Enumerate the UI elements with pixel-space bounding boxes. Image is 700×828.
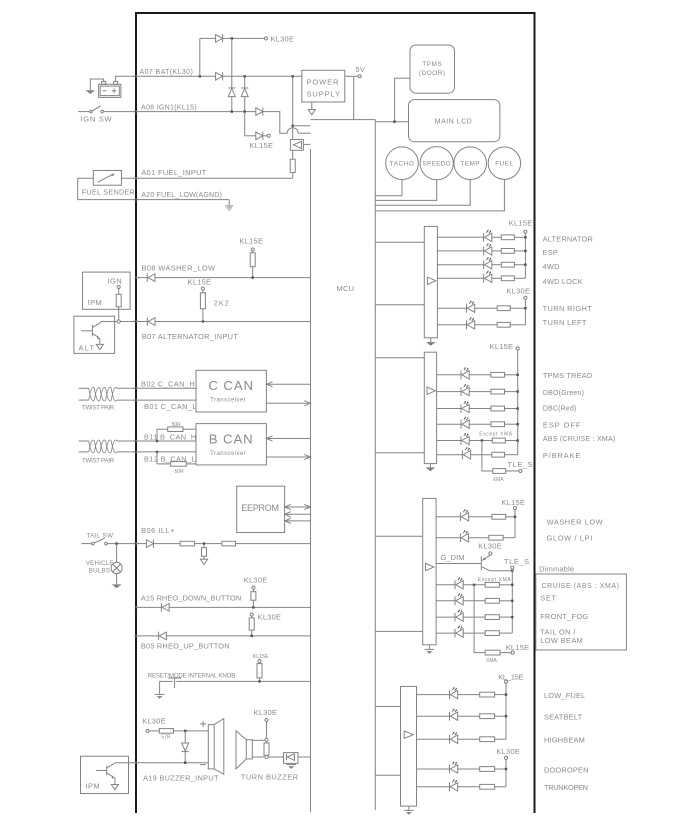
- label TLE_S sec2: [508, 460, 534, 469]
- svg-text:57R: 57R: [161, 734, 171, 740]
- gauge FUEL: [488, 147, 520, 179]
- wire front fog to resistor: [463, 616, 485, 618]
- wire xma sec3 to KL15E: [500, 652, 511, 654]
- wire B07 ALTERNATOR_INPUT: [136, 321, 311, 323]
- wire highbeam: [417, 738, 450, 740]
- svg-text:50R: 50R: [172, 422, 182, 428]
- label KL15E sec3: [502, 498, 526, 507]
- svg-text:FUEL: FUEL: [495, 161, 513, 168]
- wire p brake: [437, 454, 463, 456]
- resistor front fog: [485, 615, 499, 620]
- svg-text:B02 C_CAN_H: B02 C_CAN_H: [141, 379, 195, 388]
- wire turn driver to MCU: [298, 756, 311, 758]
- wire dim bus: [511, 569, 513, 633]
- resistor dooropen: [480, 767, 495, 772]
- wire 5V to MCU: [353, 76, 355, 119]
- wire set: [436, 600, 455, 602]
- label KL30E rheo down: [244, 576, 268, 585]
- twisted pair B-CAN: [79, 440, 136, 453]
- twisted pair C-CAN: [79, 387, 136, 401]
- wire cruise mid: [463, 584, 485, 586]
- junction dot reset pullup: [258, 680, 260, 682]
- wire 4wd: [437, 264, 483, 266]
- opto U3 box: [290, 140, 303, 151]
- node A20 border dot: [135, 198, 137, 200]
- fuel sender box: [93, 171, 121, 186]
- wire KL_15E bus sec4: [505, 683, 507, 739]
- resistor R11 rheo up pullup: [249, 616, 254, 636]
- wire tail on to bus: [499, 632, 512, 634]
- svg-text:TACHO: TACHO: [390, 161, 414, 168]
- svg-text:TWIST PAIR: TWIST PAIR: [82, 458, 115, 465]
- wire dbo green to bus: [505, 391, 518, 393]
- svg-text:4WD: 4WD: [543, 262, 560, 271]
- wire KL15E bus sec1: [524, 234, 526, 279]
- resistor R4 2K2: [200, 290, 205, 321]
- junction dot dbc red: [517, 407, 519, 409]
- ground driver U6: [426, 464, 436, 472]
- label pin B06: [141, 526, 175, 535]
- svg-text:FUEL SENDER: FUEL SENDER: [82, 187, 135, 196]
- node A19 border dot: [135, 762, 137, 764]
- resistor R7 ill: [180, 541, 195, 546]
- label TPMS: [422, 61, 442, 68]
- label TAIL ON /: [540, 628, 576, 637]
- junction dot B12 term: [156, 451, 158, 453]
- label Except XMA sec3: [478, 577, 512, 583]
- junction dot cruise xma: [473, 584, 475, 586]
- label pin A08: [141, 104, 197, 111]
- svg-text:KL30E: KL30E: [254, 708, 278, 717]
- C CAN transceiver box: [196, 370, 266, 412]
- wire seatbelt: [417, 715, 450, 717]
- svg-text:2K2: 2K2: [214, 300, 230, 307]
- wire washer low to bus: [506, 516, 515, 518]
- wire washer low: [436, 516, 460, 518]
- ground ALT: [96, 344, 103, 349]
- svg-text:A08 IGN1(KL15): A08 IGN1(KL15): [141, 104, 197, 111]
- label 50R lower: [175, 469, 185, 475]
- wire MCU to driver4 b: [375, 774, 400, 776]
- terminal KL30E buzzer: [146, 729, 149, 732]
- wire turn to driver: [268, 756, 283, 758]
- resistor cruise: [485, 582, 499, 587]
- ground driver U5: [426, 338, 436, 346]
- wire B11 B_CAN_H: [136, 440, 196, 442]
- node B11 border dot: [135, 440, 137, 442]
- cluster boundary border: [135, 12, 536, 813]
- wire 4wd lock: [437, 277, 483, 279]
- wire MCU to driver2 a: [375, 357, 424, 359]
- label TACHO: [390, 161, 414, 168]
- node B06 border dot: [135, 542, 137, 544]
- junction dot A15 pullup: [252, 606, 254, 608]
- EEPROM U4 box: [237, 486, 285, 532]
- svg-text:Except XMA: Except XMA: [479, 431, 513, 437]
- node B12 border dot: [135, 451, 137, 453]
- wire turn right to resistor: [475, 307, 498, 309]
- resistor R13 57R: [159, 729, 173, 734]
- svg-text:Dimmable: Dimmable: [539, 565, 574, 574]
- switch reset knob: [160, 678, 311, 688]
- lamp vehicle bulbs: [111, 562, 122, 573]
- resistor tail on: [485, 631, 499, 636]
- gauge TEMP: [454, 147, 487, 180]
- label pin A19: [143, 773, 219, 782]
- wire turn speaker bottom: [252, 756, 265, 758]
- wire G_DIM: [436, 563, 481, 565]
- svg-text:B08 WASHER_LOW: B08 WASHER_LOW: [142, 263, 216, 272]
- resistor p brake: [492, 452, 505, 457]
- ground IPM lower: [111, 785, 118, 790]
- diode D8 on B07: [147, 317, 155, 325]
- svg-text:CRUISE (ABS : XMA): CRUISE (ABS : XMA): [542, 583, 620, 590]
- wire front fog: [436, 616, 455, 618]
- label KL30E sec1: [507, 287, 531, 296]
- svg-text:TRUNKOPEN: TRUNKOPEN: [544, 783, 588, 792]
- ground AGND: [225, 206, 233, 210]
- label pin B07: [142, 332, 239, 341]
- label 57R: [161, 734, 171, 740]
- power supply U2 box: [302, 70, 345, 102]
- label GLOW / LPI: [547, 533, 593, 542]
- label B CAN: [209, 431, 254, 446]
- label SEATBELT: [544, 713, 583, 722]
- resistor R6 50R lower: [157, 452, 196, 466]
- wire EEPROM bus3: [285, 518, 311, 523]
- wire MCU to driver3 a: [375, 535, 422, 537]
- ALT box: [74, 316, 115, 353]
- diode D7 on B08: [147, 273, 155, 281]
- svg-text:RESET/MODE INTERNAL KNOB: RESET/MODE INTERNAL KNOB: [148, 673, 236, 680]
- junction dot B08 pullup: [252, 276, 254, 278]
- wire B01 C_CAN_L: [136, 399, 196, 401]
- label TURN BUZZER: [241, 773, 299, 782]
- wire B07 collector: [101, 321, 136, 323]
- label KL30E rheo up: [258, 613, 282, 622]
- label KL30E buzzer: [142, 717, 166, 726]
- resistor set: [485, 598, 499, 603]
- svg-text:KL15E: KL15E: [502, 498, 526, 507]
- resistor R1 fuel: [290, 159, 295, 172]
- svg-text:MAIN LCD: MAIN LCD: [435, 118, 472, 125]
- junction dot seatbelt: [505, 715, 507, 717]
- label B CAN transceiver: [210, 451, 246, 457]
- label TWIST PAIR lower: [82, 458, 115, 465]
- label FUEL: [495, 161, 513, 168]
- terminal KL30E sec4: [504, 756, 507, 759]
- label G_DIM: [441, 553, 465, 562]
- gauge SPEEDO: [420, 147, 453, 180]
- svg-text:POWER: POWER: [307, 77, 340, 86]
- label KL15E alt: [188, 278, 212, 287]
- label EEPROM: [241, 503, 279, 513]
- wire tpms tread to bus: [505, 374, 518, 376]
- svg-text:KL15E: KL15E: [506, 643, 530, 652]
- label XMA sec2: [493, 477, 505, 483]
- wire dbo green to resistor: [469, 391, 491, 393]
- terminal 5V: [358, 75, 361, 78]
- svg-text:G_DIM: G_DIM: [441, 553, 465, 562]
- wire abs row: [437, 440, 461, 442]
- wire battery positive to A07: [116, 76, 136, 81]
- wire esp to bus: [514, 250, 525, 252]
- svg-text:KL15E: KL15E: [240, 236, 264, 245]
- svg-text:B12 B_CAN_L: B12 B_CAN_L: [144, 454, 196, 463]
- node turn buzzer top circle: [265, 738, 268, 741]
- svg-text:TURN RIGHT: TURN RIGHT: [543, 304, 593, 313]
- label C CAN transceiver: [210, 398, 246, 404]
- IPM box upper: [83, 272, 131, 309]
- terminal KL30E turn: [265, 718, 268, 721]
- wire vertical D3 branch: [231, 38, 233, 111]
- node B01 border dot: [135, 399, 137, 401]
- resistor 4wd lock: [501, 276, 514, 281]
- wire MCU to C CAN: [266, 382, 310, 387]
- fuel sender arrow: [98, 173, 115, 182]
- label 4WD: [543, 262, 560, 271]
- label TURN LEFT: [543, 318, 587, 327]
- label KL15E reset: [253, 654, 269, 660]
- svg-text:B01 C_CAN_L: B01 C_CAN_L: [144, 402, 197, 411]
- svg-text:KL30E: KL30E: [258, 613, 282, 622]
- wire dooropen to resistor: [458, 768, 480, 770]
- svg-text:DBO(Green): DBO(Green): [543, 390, 584, 397]
- LED turn left: [467, 317, 475, 329]
- ground battery: [85, 90, 95, 94]
- LED abs: [461, 433, 469, 445]
- wire highbeam to bus: [495, 738, 506, 740]
- battery minus mark: [103, 90, 107, 92]
- diode D12 buzzer clamp: [182, 731, 189, 763]
- LED dooropen: [450, 761, 458, 773]
- junction dot ill divider: [203, 542, 205, 544]
- label pin B12: [144, 454, 196, 463]
- resistor R3 IPM: [116, 289, 121, 320]
- wire A08 IGN1: [136, 111, 256, 113]
- diode D4 vertical: [241, 88, 248, 97]
- svg-text:B05 RHEO_UP_BUTTON: B05 RHEO_UP_BUTTON: [141, 642, 230, 651]
- junction dot A19 diode: [184, 762, 186, 764]
- label IGN: [108, 276, 123, 285]
- wire dbc red to resistor: [469, 408, 491, 410]
- junction dot dbo green: [517, 390, 519, 392]
- wire abs to junction: [469, 440, 492, 442]
- wire KL15E bus sec3: [514, 510, 516, 538]
- svg-text:TURN BUZZER: TURN BUZZER: [241, 773, 299, 782]
- svg-text:Transceiver: Transceiver: [210, 398, 246, 404]
- junction dot tpms tread: [517, 374, 519, 376]
- svg-text:A19 BUZZER_INPUT: A19 BUZZER_INPUT: [143, 773, 219, 782]
- junction dot B07 pullup: [202, 320, 204, 322]
- wire low fuel: [417, 694, 450, 696]
- svg-text:KL30E: KL30E: [507, 287, 531, 296]
- junction dot alternator: [524, 236, 526, 238]
- wire tail on to resistor: [463, 632, 485, 634]
- svg-text:B07 ALTERNATOR_INPUT: B07 ALTERNATOR_INPUT: [142, 332, 239, 341]
- junction dot abs xma: [481, 439, 483, 441]
- label XMA sec3: [486, 658, 498, 664]
- label pin A07: [140, 69, 194, 76]
- wire seatbelt to bus: [495, 715, 506, 717]
- resistor R10 rheo down pullup: [251, 589, 256, 607]
- wire KL30E: [223, 37, 265, 39]
- LED dbo green: [461, 384, 469, 396]
- label LOW_FUEL: [544, 691, 585, 700]
- label FUEL SENDER: [82, 187, 135, 196]
- svg-text:KL30E: KL30E: [496, 747, 520, 756]
- label IPM upper: [88, 298, 103, 307]
- terminal KL15E alt pullup: [201, 287, 204, 290]
- svg-text:GLOW / LPI: GLOW / LPI: [547, 533, 593, 542]
- junction dot KL30E: [231, 37, 233, 39]
- label Dimmable: [539, 565, 574, 574]
- resistor tpms tread: [491, 372, 505, 377]
- svg-text:C CAN: C CAN: [208, 378, 254, 393]
- svg-text:P/BRAKE: P/BRAKE: [543, 451, 581, 460]
- svg-text:50R: 50R: [175, 469, 185, 475]
- junction dot esp off: [517, 423, 519, 425]
- svg-text:A01 FUEL_INPUT: A01 FUEL_INPUT: [141, 168, 206, 177]
- svg-text:A20 FUEL_LOW(AGND): A20 FUEL_LOW(AGND): [141, 192, 222, 199]
- wire B06 ILL+: [136, 543, 311, 545]
- wire p brake to resistor: [471, 454, 492, 456]
- svg-text:TURN LEFT: TURN LEFT: [543, 318, 587, 327]
- LED dbc red: [461, 401, 469, 413]
- junction dot A08-D4: [244, 110, 246, 112]
- wire MCU to driver1 a: [375, 241, 424, 243]
- wire dbo green: [437, 391, 461, 393]
- terminal KL30E sec3: [489, 552, 492, 555]
- svg-text:BULBS: BULBS: [89, 568, 110, 575]
- terminal KL15E sec3: [513, 507, 516, 510]
- LED esp: [484, 243, 492, 255]
- node turn buzzer bottom circle: [265, 755, 268, 758]
- label SUPPLY: [307, 90, 341, 99]
- wire B CAN to MCU: [266, 454, 310, 459]
- label KL15E xma: [506, 643, 530, 652]
- svg-text:EEPROM: EEPROM: [241, 503, 279, 513]
- ground vehicle bulbs: [112, 584, 122, 588]
- svg-text:B06 ILL+: B06 ILL+: [141, 526, 175, 535]
- junction dot abs: [517, 439, 519, 441]
- wire 4wd to bus: [514, 264, 525, 266]
- svg-text:XMA: XMA: [486, 658, 498, 664]
- junction dot opto tap: [292, 125, 294, 127]
- transistor Q1 ALT: [81, 322, 101, 345]
- wire esp off to bus: [505, 423, 518, 425]
- wire p brake to bus: [505, 454, 518, 456]
- MCU U1 box: [311, 120, 376, 812]
- resistor turn left: [497, 322, 510, 327]
- MCU label: [337, 284, 355, 293]
- wire battery negative: [90, 79, 103, 90]
- wire SPEEDO to MCU: [375, 180, 436, 201]
- node B05 border dot: [135, 635, 137, 637]
- ground ill divider: [200, 559, 207, 564]
- switch IGN SW: [78, 106, 136, 113]
- svg-text:LOW BEAM: LOW BEAM: [540, 636, 583, 645]
- svg-text:B CAN: B CAN: [209, 431, 254, 446]
- wire turn right: [437, 307, 466, 309]
- svg-text:IPM: IPM: [88, 298, 103, 307]
- wire turn right to bus: [510, 307, 525, 309]
- label P/BRAKE: [543, 451, 581, 460]
- terminal KL15E washer pullup: [251, 248, 254, 251]
- svg-text:IGN SW: IGN SW: [81, 115, 113, 124]
- terminal IGN: [117, 285, 120, 288]
- B CAN transceiver box: [196, 424, 266, 465]
- label KL30E sec3: [478, 541, 502, 550]
- wire resistor to A01: [292, 173, 294, 179]
- resistor R8 ill: [222, 541, 236, 546]
- label C CAN: [208, 378, 254, 393]
- svg-text:ABS (CRUISE : XMA): ABS (CRUISE : XMA): [543, 436, 616, 443]
- wire turn left: [437, 324, 466, 326]
- junction dot buzzer diode: [184, 730, 186, 732]
- junction dot A08-D3: [231, 110, 233, 112]
- wire turn buzzer supply: [266, 722, 268, 739]
- node A15 border dot: [135, 606, 137, 608]
- gauge TACHO: [386, 147, 419, 180]
- LED 4wd: [484, 257, 492, 269]
- node IPM junction circle: [117, 320, 120, 323]
- svg-text:DBC(Red): DBC(Red): [543, 405, 576, 412]
- wire MCU to B CAN: [266, 436, 310, 441]
- label pin B11: [144, 432, 197, 441]
- label FRONT_FOG: [540, 612, 588, 621]
- svg-text:MCU: MCU: [337, 284, 355, 293]
- svg-text:TWIST PAIR: TWIST PAIR: [82, 405, 115, 412]
- wire A20 FUEL_LOW: [78, 178, 230, 206]
- junction dot LCD bus: [393, 121, 395, 123]
- LED alternator: [484, 230, 492, 242]
- wire alternator to resistor: [492, 236, 502, 238]
- ground driver U7: [425, 645, 435, 654]
- resistor dbc red: [491, 406, 505, 411]
- label HIGHBEAM: [544, 736, 585, 745]
- terminal KL15E xma: [511, 651, 514, 654]
- label pin B01: [144, 402, 197, 411]
- svg-text:DOOROPEN: DOOROPEN: [544, 766, 589, 775]
- label SET: [540, 594, 556, 603]
- junction dot washer low: [514, 516, 516, 518]
- svg-text:ALT: ALT: [79, 344, 96, 353]
- resistor glow lpi: [489, 535, 503, 540]
- label ESP: [543, 248, 558, 257]
- diode D3 vertical: [228, 88, 235, 97]
- terminal KL15E sec2: [516, 347, 519, 350]
- wire Q2 collector to A19: [116, 762, 137, 764]
- junction dot TLE_S: [511, 570, 513, 572]
- diode D10 on A15: [161, 603, 169, 611]
- wire tpms tread: [437, 374, 461, 376]
- ground power supply: [308, 102, 315, 115]
- junction dot set: [511, 600, 513, 602]
- wire A01 FUEL_INPUT: [122, 177, 293, 179]
- label minus: [200, 764, 206, 766]
- TPMS DOOR box: [410, 45, 455, 93]
- battery B1: [99, 81, 121, 97]
- label ALT: [79, 344, 96, 353]
- svg-text:SPEEDO: SPEEDO: [422, 161, 450, 168]
- resistor 4wd: [501, 262, 514, 267]
- svg-text:SUPPLY: SUPPLY: [307, 90, 341, 99]
- wire low fuel to resistor: [458, 694, 480, 696]
- resistor low fuel: [480, 692, 495, 697]
- label pin B05: [141, 642, 230, 651]
- junction dot A07-D4: [244, 75, 246, 77]
